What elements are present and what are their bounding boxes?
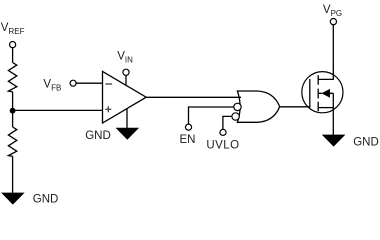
- net label VPG: [323, 4, 342, 18]
- net label VFB: [43, 79, 61, 93]
- wire U1 negative supply to ground: [126, 108, 128, 128]
- Q1 gate bar: [309, 79, 311, 107]
- wire VFB terminal to comparator inverting input: [76, 82, 103, 84]
- Q1 source connection: [318, 107, 333, 109]
- U1 non-inverting input marker: [105, 106, 111, 112]
- U2 input 2 inversion bubble: [234, 103, 241, 110]
- Q1 body arrow: [321, 89, 330, 98]
- wire Q1 source to ground: [332, 93, 334, 135]
- terminal EN: [185, 124, 191, 130]
- svg-text:VPG: VPG: [323, 4, 342, 18]
- wire R2 to ground: [12, 156, 14, 193]
- Q1 channel segments: [317, 75, 319, 111]
- wire node FB to R2: [12, 111, 14, 127]
- Q1 body wire: [318, 92, 333, 94]
- net label UVLO: [206, 140, 239, 152]
- wire U2 output to Q1 gate: [280, 106, 311, 108]
- U1 inverting input marker: [105, 83, 112, 85]
- ground label left: [33, 193, 59, 205]
- resistor R2: [8, 127, 16, 156]
- ground label comparator: [85, 130, 111, 142]
- wire VIN terminal to U1 positive supply: [125, 76, 127, 86]
- svg-text:VREF: VREF: [1, 22, 25, 36]
- ground label output: [353, 136, 379, 148]
- resistor R1: [8, 63, 16, 92]
- svg-text:GND: GND: [85, 130, 111, 142]
- terminal VREF: [10, 42, 16, 48]
- terminal VFB: [70, 80, 76, 86]
- net label VREF: [1, 22, 25, 36]
- wire EN to U2 input 2: [189, 107, 234, 124]
- svg-text:VIN: VIN: [117, 50, 133, 64]
- or-gate U2: [237, 91, 279, 122]
- terminal VPG: [330, 19, 336, 25]
- comparator U1: [103, 71, 147, 123]
- net label EN: [180, 134, 196, 146]
- ground symbol left: [1, 193, 25, 205]
- terminal UVLO: [220, 129, 226, 135]
- wire node FB to comparator non-inverting input: [13, 109, 103, 111]
- Q1 drain connection: [318, 25, 333, 80]
- node FB junction dot: [10, 108, 16, 114]
- ground symbol comparator: [116, 128, 140, 140]
- U2 input 3 inversion bubble: [232, 113, 239, 120]
- wire U1 output to OR gate input 1: [146, 96, 241, 98]
- svg-text:GND: GND: [353, 136, 379, 148]
- net label VIN: [117, 50, 133, 64]
- terminal VIN: [123, 69, 129, 75]
- wire UVLO to U2 input 3: [223, 116, 232, 129]
- svg-text:EN: EN: [180, 134, 196, 146]
- transistor Q1 body circle: [302, 72, 343, 113]
- ground symbol output: [322, 135, 346, 147]
- svg-text:GND: GND: [33, 193, 59, 205]
- wire VREF terminal to R1: [12, 48, 14, 63]
- wire R1 to node FB: [12, 92, 14, 111]
- svg-text:VFB: VFB: [43, 79, 61, 93]
- svg-text:UVLO: UVLO: [206, 140, 239, 152]
